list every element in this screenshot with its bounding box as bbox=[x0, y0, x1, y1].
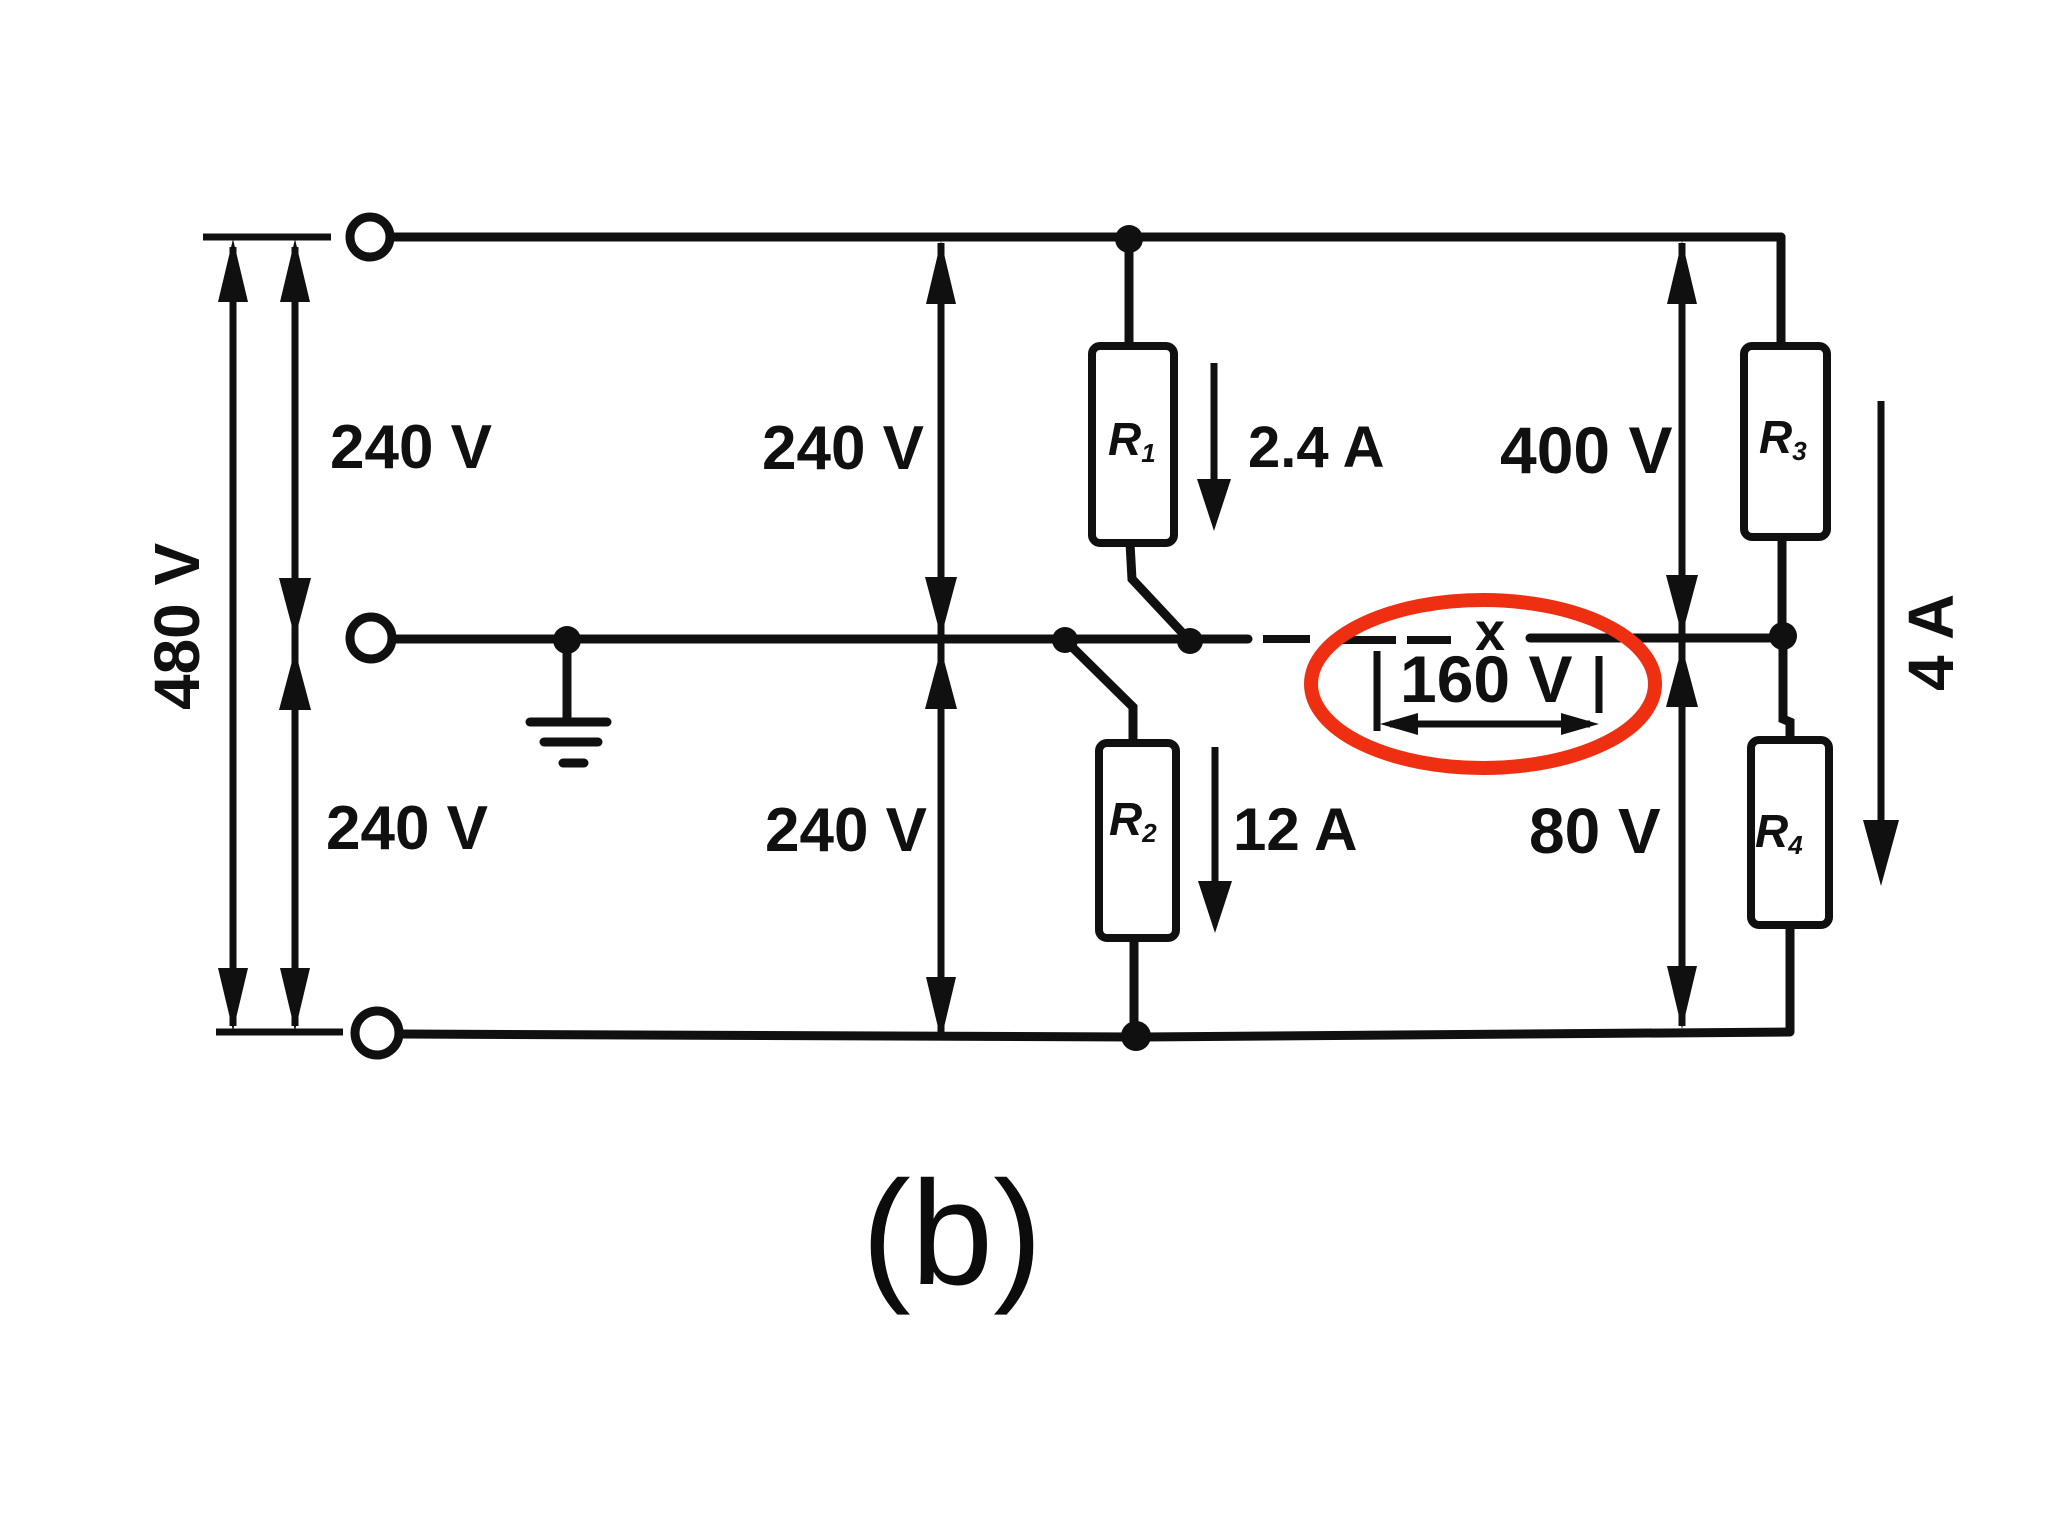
svg-text:240 V: 240 V bbox=[765, 796, 927, 865]
svg-text:240 V: 240 V bbox=[762, 414, 924, 483]
svg-text:12 A: 12 A bbox=[1233, 796, 1358, 863]
svg-text:480 V: 480 V bbox=[141, 542, 213, 710]
svg-text:240 V: 240 V bbox=[326, 794, 488, 863]
svg-text:x: x bbox=[1475, 602, 1505, 662]
svg-text:400 V: 400 V bbox=[1500, 413, 1672, 487]
svg-text:(b): (b) bbox=[862, 1151, 1043, 1316]
svg-text:2.4 A: 2.4 A bbox=[1248, 415, 1384, 480]
svg-text:4 A: 4 A bbox=[1895, 594, 1967, 691]
svg-text:80 V: 80 V bbox=[1529, 795, 1661, 867]
svg-text:240 V: 240 V bbox=[330, 413, 492, 482]
